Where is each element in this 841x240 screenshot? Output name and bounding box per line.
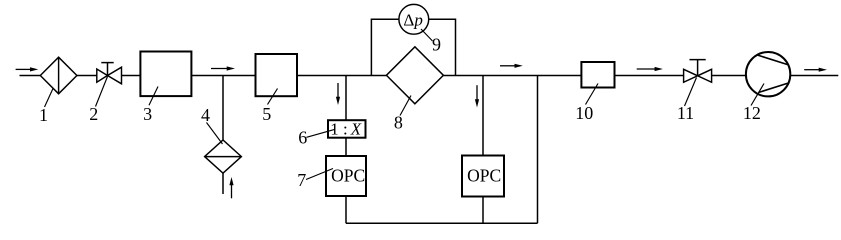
- svg-text:4: 4: [201, 105, 210, 125]
- svg-text:6: 6: [298, 128, 307, 148]
- svg-text:OPC: OPC: [467, 165, 501, 185]
- svg-text:1: 1: [39, 105, 48, 125]
- svg-text:12: 12: [743, 103, 761, 123]
- svg-text:X: X: [350, 119, 362, 138]
- svg-text:3: 3: [143, 104, 152, 124]
- svg-text:1: 1: [330, 119, 339, 138]
- svg-text:7: 7: [297, 170, 306, 190]
- svg-text::: :: [343, 119, 348, 138]
- svg-text:2: 2: [89, 104, 98, 124]
- svg-text:9: 9: [432, 35, 441, 55]
- svg-text:8: 8: [394, 113, 403, 133]
- svg-text:Δp: Δp: [403, 10, 422, 29]
- svg-text:11: 11: [677, 103, 694, 123]
- svg-text:5: 5: [262, 104, 271, 124]
- svg-text:10: 10: [575, 103, 593, 123]
- svg-text:OPC: OPC: [331, 165, 365, 185]
